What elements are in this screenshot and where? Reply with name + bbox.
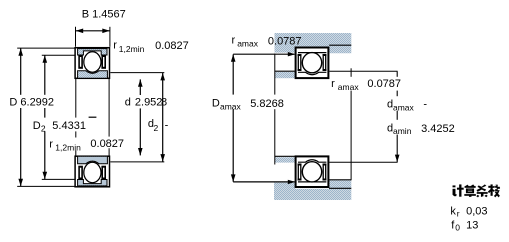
d2 dimension line: [160, 73, 165, 162]
shu: [488, 185, 500, 198]
side face line right (between sections): [108, 79, 110, 157]
bearing section top-right: [296, 48, 329, 79]
ji: [453, 185, 464, 197]
label Da max 5.8268: [210, 95, 287, 112]
side face line left (between sections): [75, 79, 77, 157]
label ra max top: [232, 35, 302, 49]
label r1,2min bottom: [48, 137, 126, 153]
svg-text:amax: amax: [220, 101, 242, 111]
D dimension extension lines: [17, 48, 74, 186]
svg-text:8: 8: [161, 97, 167, 109]
housing outer edge extension line: [350, 68, 352, 180]
svg-text:r: r: [49, 139, 53, 151]
da extension line bottom: [329, 161, 397, 163]
svg-text:0,03: 0,03: [466, 205, 487, 217]
svg-text:amin: amin: [393, 126, 412, 136]
housing shoulder extension line: [274, 54, 276, 165]
ra max leader bottom: [233, 180, 295, 184]
D2 dimension extension lines: [42, 55, 75, 179]
svg-text:k: k: [450, 205, 456, 217]
label B 1.4567: [82, 9, 126, 21]
svg-text:0.0787: 0.0787: [367, 78, 401, 90]
svg-text:d: d: [125, 97, 131, 109]
svg-text:D 6.2992: D 6.2992: [9, 97, 54, 109]
svg-text:r: r: [457, 208, 460, 218]
svg-text:amax: amax: [338, 82, 360, 92]
label da max -: [385, 96, 430, 112]
d2 extension lines: [110, 73, 164, 162]
svg-text:1,2min: 1,2min: [119, 44, 145, 54]
label r1,2min top: [113, 39, 189, 54]
bearing section bottom-left (mirror): [75, 156, 109, 187]
svg-text:0: 0: [455, 223, 460, 233]
Da max dimension line: [231, 54, 236, 182]
B dimension line: [76, 29, 110, 34]
svg-text:-: -: [165, 119, 169, 131]
label D2 5.4331: [31, 118, 86, 134]
housing abutment top: [275, 33, 352, 53]
svg-text:2: 2: [154, 123, 159, 133]
label da min 3.4252: [385, 120, 456, 136]
label ra max right: [330, 77, 402, 92]
label d 2.9528: [123, 95, 167, 109]
bearing section top-left: [75, 48, 109, 79]
svg-text:B 1.4567: B 1.4567: [82, 9, 126, 21]
svg-text:amax: amax: [237, 39, 259, 49]
ra max leader top: [233, 52, 295, 56]
shaft abutment bottom: [275, 156, 296, 162]
centerline dash: [89, 116, 97, 118]
svg-text:0.0827: 0.0827: [90, 138, 124, 150]
svg-text:D: D: [212, 98, 220, 110]
housing abutment bottom: [274, 180, 351, 200]
da extension line top: [329, 70, 397, 72]
bearing section bottom-right (mirror): [296, 156, 329, 187]
svg-text:1,2min: 1,2min: [55, 143, 81, 153]
svg-text:r: r: [331, 78, 335, 90]
xi: [476, 185, 487, 198]
svg-text:-: -: [423, 99, 427, 111]
svg-text:2.952: 2.952: [135, 97, 163, 109]
da dimension line: [395, 72, 400, 163]
label d2 -: [148, 118, 169, 133]
label f0 13: [451, 220, 478, 233]
svg-text:0.0827: 0.0827: [155, 40, 189, 52]
svg-text:5.4331: 5.4331: [52, 120, 86, 132]
svg-text:r: r: [232, 35, 236, 47]
label D 6.2992: [8, 95, 57, 109]
shaft abutment top: [275, 71, 295, 78]
svg-text:0.0787: 0.0787: [268, 36, 302, 48]
svg-text:amax: amax: [393, 102, 415, 112]
housing bore step line right: [329, 44, 351, 46]
D dimension line: [18, 48, 23, 186]
svg-text:13: 13: [466, 220, 478, 232]
svg-text:2: 2: [41, 124, 46, 134]
svg-text:5.8268: 5.8268: [250, 98, 284, 110]
label kr 0,03: [450, 205, 487, 218]
svg-text:3.4252: 3.4252: [421, 123, 455, 135]
D2 dimension line: [43, 55, 48, 179]
svg-text:D: D: [33, 120, 41, 132]
svg-text:r: r: [113, 39, 117, 51]
suan: [464, 185, 475, 197]
B dimension extension lines: [76, 27, 110, 47]
d dimension line: [138, 79, 143, 155]
label calculation factors (CJK drawn as paths): [453, 185, 500, 198]
